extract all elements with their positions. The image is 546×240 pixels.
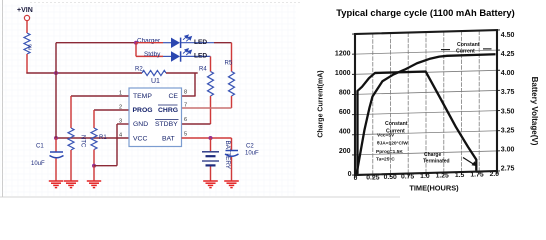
svg-text:6: 6 (184, 117, 187, 123)
svg-text:4.50: 4.50 (501, 32, 515, 39)
svg-text:Stdby: Stdby (144, 51, 161, 58)
svg-text:2.75: 2.75 (501, 166, 515, 173)
svg-text:Typical charge cycle (1100 mAh: Typical charge cycle (1100 mAh Battery) (336, 7, 515, 18)
svg-text:R4: R4 (199, 67, 207, 73)
svg-text:3.00: 3.00 (501, 146, 515, 153)
svg-text:8: 8 (184, 90, 187, 96)
svg-text:STDBY: STDBY (155, 121, 178, 128)
svg-text:R1: R1 (99, 135, 107, 141)
svg-text:+VIN: +VIN (17, 7, 33, 14)
svg-text:Charger: Charger (137, 38, 161, 45)
svg-text:0.25: 0.25 (366, 175, 379, 182)
svg-text:1.5: 1.5 (455, 172, 465, 179)
svg-text:2.0: 2.0 (490, 171, 500, 178)
svg-text:Constant: Constant (385, 121, 408, 127)
svg-text:GND: GND (133, 121, 148, 128)
svg-text:Constant: Constant (457, 42, 480, 48)
svg-text:R6: R6 (28, 44, 33, 50)
svg-text:LED: LED (194, 39, 207, 46)
svg-text:1.25: 1.25 (436, 173, 449, 180)
svg-text:4.00: 4.00 (501, 70, 515, 77)
svg-text:TEMP: TEMP (133, 93, 152, 100)
svg-text:200: 200 (339, 148, 351, 155)
svg-text:Charge Current(mA): Charge Current(mA) (318, 70, 325, 137)
svg-text:3.75: 3.75 (501, 89, 515, 96)
svg-text:400: 400 (339, 128, 351, 135)
svg-text:1200: 1200 (335, 50, 351, 57)
svg-text:θJA=120°C/W: θJA=120°C/W (377, 141, 408, 147)
svg-text:3.25: 3.25 (501, 127, 515, 134)
svg-text:Terminated: Terminated (423, 159, 450, 165)
svg-text:1: 1 (119, 91, 122, 97)
svg-text:R2: R2 (135, 67, 143, 73)
svg-text:0: 0 (354, 175, 358, 182)
svg-text:3.50: 3.50 (501, 108, 515, 115)
svg-text:7: 7 (184, 103, 187, 109)
svg-text:Pprog=1.5K: Pprog=1.5K (376, 149, 403, 155)
svg-text:C1: C1 (36, 144, 44, 150)
svg-text:C2: C2 (246, 144, 254, 150)
svg-text:0.50: 0.50 (384, 174, 397, 181)
svg-text:1.0: 1.0 (420, 173, 430, 180)
svg-text:0.75: 0.75 (401, 174, 414, 181)
svg-text:NTC: NTC (80, 135, 86, 148)
svg-text:Charge: Charge (424, 152, 441, 158)
svg-text:800: 800 (339, 89, 351, 96)
svg-text:PROG: PROG (133, 107, 153, 114)
svg-text:CHRG: CHRG (158, 107, 178, 114)
svg-text:Vcc=5V: Vcc=5V (377, 132, 395, 138)
svg-text:1.75: 1.75 (470, 172, 483, 179)
svg-text:U1: U1 (151, 78, 160, 85)
svg-text:10uF: 10uF (245, 151, 259, 157)
svg-text:10uF: 10uF (31, 161, 45, 167)
svg-text:600: 600 (339, 109, 351, 116)
svg-text:5: 5 (184, 132, 187, 138)
svg-text:4: 4 (119, 133, 122, 139)
svg-text:2: 2 (119, 105, 122, 111)
svg-text:CE: CE (169, 93, 179, 100)
svg-text:Battery Voltage(V): Battery Voltage(V) (530, 77, 539, 146)
svg-text:BAT: BAT (162, 136, 175, 143)
svg-text:0: 0 (348, 171, 352, 178)
svg-text:VCC: VCC (133, 136, 147, 143)
svg-text:1000: 1000 (335, 70, 351, 77)
svg-text:R5: R5 (225, 61, 233, 67)
svg-text:TIME(HOURS): TIME(HOURS) (409, 184, 459, 193)
svg-text:4.25: 4.25 (501, 51, 515, 58)
svg-text:LED: LED (194, 53, 207, 60)
svg-text:Ta=25°C: Ta=25°C (376, 157, 395, 163)
svg-text:3: 3 (119, 119, 122, 125)
svg-text:Current: Current (456, 48, 475, 54)
